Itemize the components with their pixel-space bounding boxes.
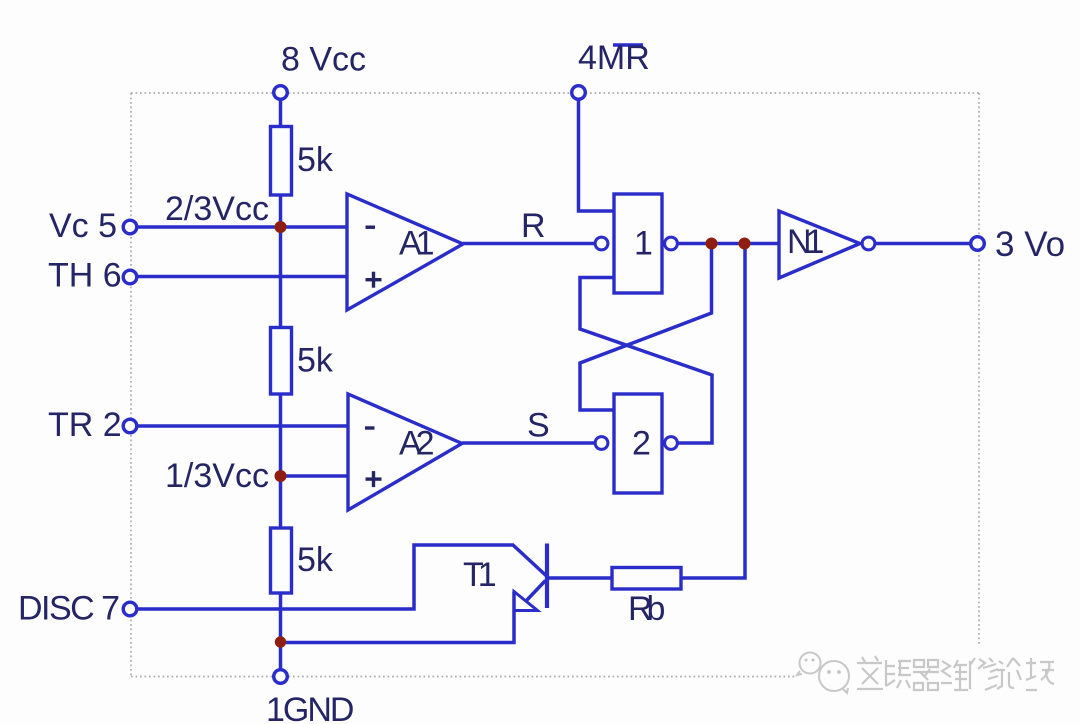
junction node 1/3Vcc bbox=[275, 470, 287, 482]
transistor T1 base bar bbox=[545, 544, 549, 609]
A1 plus sign bbox=[366, 272, 382, 288]
wire R1 to R2 through node 2/3Vcc bbox=[279, 195, 283, 328]
wire feedback gate1 output to gate2 second input bbox=[580, 244, 712, 411]
svg-text:T1: T1 bbox=[463, 556, 496, 594]
wire T1 base to Rb bbox=[547, 576, 613, 580]
watermark background bbox=[795, 646, 1065, 702]
resistor R2 5k bbox=[271, 328, 292, 395]
gate 2 input bubble bbox=[595, 437, 608, 450]
svg-text:A2: A2 bbox=[399, 425, 434, 463]
MR overline bbox=[613, 43, 643, 47]
svg-text:A1: A1 bbox=[399, 225, 434, 263]
gate 1 output bubble bbox=[665, 237, 678, 250]
svg-text:S: S bbox=[527, 407, 550, 445]
svg-text:5k: 5k bbox=[297, 141, 334, 179]
watermark wechat logo bbox=[797, 653, 849, 694]
svg-text:4MR: 4MR bbox=[578, 39, 650, 77]
wire R2 to R3 through node 1/3Vcc bbox=[279, 394, 283, 529]
junction node flip-flop output a bbox=[706, 238, 718, 250]
N1 output bubble bbox=[862, 237, 875, 250]
wire N1 to output terminal pin3 bbox=[875, 242, 971, 246]
terminal TR pin 2 bbox=[123, 419, 137, 433]
comparator A1 bbox=[347, 194, 463, 310]
svg-text:2/3Vcc: 2/3Vcc bbox=[165, 190, 269, 228]
IC boundary dotted border bbox=[131, 93, 979, 677]
terminal Vc pin 5 bbox=[123, 220, 137, 234]
A2 plus sign bbox=[366, 471, 382, 487]
svg-text:3 Vo: 3 Vo bbox=[995, 225, 1065, 264]
inverter N1 bbox=[779, 211, 860, 278]
svg-text:1/3Vcc: 1/3Vcc bbox=[165, 457, 269, 495]
nand gate 1 body bbox=[614, 194, 662, 293]
terminal Vo pin 3 bbox=[971, 237, 985, 251]
wire T1 collector diagonal bbox=[513, 545, 547, 576]
A2 minus sign bbox=[365, 426, 375, 429]
svg-text:5k: 5k bbox=[297, 541, 334, 579]
svg-text:N1: N1 bbox=[787, 223, 824, 261]
wire TR pin2 to A2 inverting input bbox=[138, 424, 349, 428]
wire A2 output S bbox=[462, 441, 594, 445]
wire gate1 output to N1 bbox=[677, 242, 781, 246]
svg-text:Rb: Rb bbox=[628, 590, 665, 628]
junction node flip-flop output b bbox=[739, 238, 751, 250]
resistor R3 5k bbox=[271, 528, 292, 593]
svg-text:8 Vcc: 8 Vcc bbox=[281, 41, 366, 79]
terminal Vcc pin 8 bbox=[274, 86, 288, 100]
wire MR pin4 to gate 1 input bbox=[579, 99, 615, 211]
transistor T1 emitter arrow bbox=[514, 592, 538, 611]
wire DISC pin7 to T1 collector bbox=[138, 545, 514, 609]
resistor Rb bbox=[612, 568, 681, 590]
junction node GND-emitter bbox=[275, 636, 286, 647]
transistor T1 emitter diagonal bbox=[526, 581, 546, 602]
A1 minus sign bbox=[366, 226, 376, 229]
wire T1 emitter to GND node bbox=[281, 592, 515, 643]
svg-text:DISC 7: DISC 7 bbox=[18, 590, 119, 628]
resistor R1 5k bbox=[271, 127, 292, 196]
watermark text 变频器维修论坛 bbox=[857, 656, 1054, 690]
wire R3 to GND terminal bbox=[279, 593, 283, 669]
terminal GND pin 1 bbox=[274, 670, 288, 684]
svg-text:TH 6: TH 6 bbox=[48, 257, 122, 295]
svg-text:R: R bbox=[521, 207, 546, 245]
svg-text:TR 2: TR 2 bbox=[48, 406, 122, 444]
svg-text:Vc 5: Vc 5 bbox=[49, 207, 117, 245]
terminal TH pin 6 bbox=[123, 270, 137, 284]
svg-text:1GND: 1GND bbox=[266, 691, 353, 724]
wire Rb to flip-flop output node bbox=[681, 244, 745, 579]
terminal DISC pin 7 bbox=[123, 602, 137, 616]
comparator A2 bbox=[348, 394, 462, 510]
wire Vcc stub to R1 bbox=[279, 99, 283, 127]
svg-text:5k: 5k bbox=[297, 342, 334, 380]
terminal MR pin 4 bbox=[572, 86, 586, 100]
wire TH pin6 to A1 non-inverting input bbox=[138, 275, 349, 279]
nand gate 2 body bbox=[614, 394, 662, 493]
gate 1 input bubble bbox=[595, 237, 608, 250]
wire feedback gate2 output to gate1 second input bbox=[580, 278, 712, 444]
junction node 2/3Vcc bbox=[275, 221, 287, 233]
svg-text:1: 1 bbox=[634, 225, 653, 263]
svg-text:2: 2 bbox=[632, 425, 651, 463]
wire node 1/3Vcc to A2 non-inverting input bbox=[281, 474, 350, 478]
wire A1 output R bbox=[463, 242, 594, 246]
wire Vc pin5 to A1 inverting input bbox=[138, 225, 349, 229]
gate 2 output bubble bbox=[665, 437, 678, 450]
